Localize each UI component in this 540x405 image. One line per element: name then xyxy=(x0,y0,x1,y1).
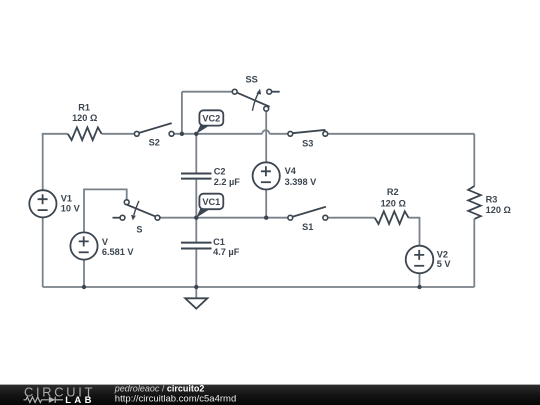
svg-text:LAB: LAB xyxy=(65,394,94,405)
switch S2 xyxy=(134,123,174,147)
svg-text:S3: S3 xyxy=(302,138,313,148)
junction at V2 bottom xyxy=(417,285,421,289)
svg-text:pedroleaoc / circuito2: pedroleaoc / circuito2 xyxy=(114,384,205,394)
junction at VC2/C2 branch xyxy=(194,132,198,136)
ground xyxy=(185,298,207,308)
voltage source V4 xyxy=(253,162,318,189)
voltage source V 6.581 xyxy=(70,232,134,259)
resistor R3 xyxy=(468,186,481,219)
svg-text:120 Ω: 120 Ω xyxy=(72,113,97,123)
wire V source top to S throw xyxy=(84,189,127,232)
wire bottom bus xyxy=(43,286,475,288)
wire middle bus to C1 xyxy=(195,218,197,242)
svg-text:S1: S1 xyxy=(302,222,313,232)
svg-text:V: V xyxy=(102,237,109,247)
switch S3 xyxy=(288,130,328,148)
svg-text:6.581 V: 6.581 V xyxy=(102,247,135,257)
wire hop to S3 left terminal xyxy=(269,133,287,135)
wire junction A up to SS xyxy=(181,92,183,134)
wire V4 bottom to middle bus xyxy=(265,190,267,218)
wire middle bus (S common to S1 left) xyxy=(160,217,288,219)
switch SS xyxy=(232,75,279,112)
svg-text:V4: V4 xyxy=(285,166,297,176)
svg-text:120 Ω: 120 Ω xyxy=(381,199,406,209)
svg-text:5 V: 5 V xyxy=(437,259,452,269)
svg-text:V1: V1 xyxy=(61,194,72,204)
wire C1 to bottom bus xyxy=(195,250,197,288)
svg-text:2.2 µF: 2.2 µF xyxy=(214,177,241,187)
wire V source bottom to bus xyxy=(83,260,85,287)
svg-text:V2: V2 xyxy=(437,249,448,259)
resistor R1 xyxy=(68,127,102,140)
wire right vertical below R3 xyxy=(473,219,475,287)
capacitor C1 xyxy=(181,237,240,257)
svg-text:S: S xyxy=(136,225,142,235)
svg-text:R2: R2 xyxy=(387,187,399,197)
wire top horizontal to SS left throw xyxy=(182,91,232,93)
svg-text:120 Ω: 120 Ω xyxy=(486,205,511,215)
junction at C1 bottom xyxy=(194,285,198,289)
wire hop over V4 branch xyxy=(262,130,269,134)
svg-text:S2: S2 xyxy=(149,137,160,147)
svg-text:R1: R1 xyxy=(78,103,90,113)
wire ground stub xyxy=(195,287,197,298)
resistor R2 xyxy=(375,211,409,224)
svg-text:R3: R3 xyxy=(486,194,498,204)
svg-text:VC2: VC2 xyxy=(202,113,220,123)
wire S1 right to R2 xyxy=(327,217,374,219)
wire left vertical bottom (V1 to bottom bus) xyxy=(42,217,44,287)
junction at VC1/C1 node xyxy=(194,216,198,220)
junction at V source bottom xyxy=(82,285,86,289)
wire V2 bottom to bottom bus xyxy=(419,273,421,287)
footer logo resistor squiggle and diode xyxy=(24,397,64,403)
switch S xyxy=(113,200,160,235)
node label VC2 xyxy=(196,110,223,134)
svg-text:http://circuitlab.com/c5a4rmd: http://circuitlab.com/c5a4rmd xyxy=(115,394,236,405)
node label VC1 xyxy=(196,194,223,218)
wire R2 to V2 top xyxy=(408,218,419,246)
wire SS common down to V4 xyxy=(265,111,267,162)
junction at S2/SS branch xyxy=(180,132,184,136)
capacitor C2 xyxy=(181,166,240,187)
wire S2 right terminal to hop xyxy=(174,133,262,135)
wire C2 branch top xyxy=(195,134,197,173)
svg-text:C1: C1 xyxy=(213,237,225,247)
wire C2 to middle bus xyxy=(195,180,197,218)
junction at V4 bottom xyxy=(264,216,268,220)
footer bar xyxy=(0,385,540,405)
switch S1 xyxy=(288,207,328,232)
svg-text:C2: C2 xyxy=(214,166,226,176)
voltage source V2 xyxy=(406,246,452,274)
svg-text:4.7 µF: 4.7 µF xyxy=(213,247,240,257)
wire S3 right terminal to right vertical xyxy=(328,133,475,135)
svg-text:VC1: VC1 xyxy=(202,197,220,207)
wire left vertical top (R1 branch to V1) xyxy=(42,134,44,190)
wire R1 to S2 xyxy=(102,133,135,135)
voltage source V1 xyxy=(29,190,80,217)
svg-text:SS: SS xyxy=(245,75,257,85)
wire right vertical above R3 xyxy=(473,134,475,186)
svg-text:3.398 V: 3.398 V xyxy=(285,177,318,187)
svg-text:10 V: 10 V xyxy=(61,203,81,213)
wire top-left horizontal into R1 xyxy=(42,133,68,135)
